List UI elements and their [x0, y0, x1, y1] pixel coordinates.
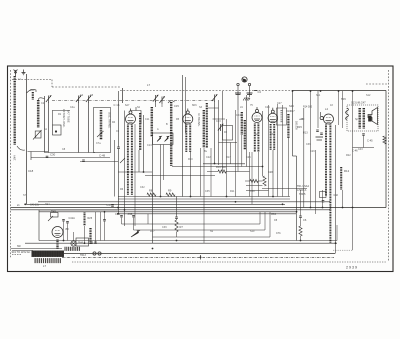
wire bus — [11, 209, 331, 211]
wire — [213, 118, 226, 120]
wire — [30, 152, 32, 161]
wire — [80, 161, 118, 163]
resistor box R3 — [223, 126, 233, 141]
junction — [63, 240, 65, 242]
wire — [52, 111, 54, 126]
wire — [342, 190, 344, 208]
wire — [246, 190, 269, 192]
junction — [200, 256, 202, 258]
svg-text:R22: R22 — [346, 154, 351, 157]
wire AVC dashed upper — [12, 79, 52, 81]
wire — [203, 148, 205, 243]
svg-text:C24: C24 — [236, 114, 241, 117]
wire — [293, 155, 297, 157]
rectifier V6 80 — [52, 227, 63, 238]
junction — [84, 242, 86, 244]
svg-text:C43: C43 — [358, 148, 363, 151]
wire — [104, 221, 106, 241]
coil L1 — [14, 76, 16, 145]
wire bus — [118, 213, 296, 215]
wire U-run — [148, 223, 260, 225]
wire — [218, 100, 220, 165]
wire — [251, 152, 253, 204]
anode box — [131, 107, 141, 124]
wire — [122, 223, 149, 225]
capacitor C40a — [235, 92, 241, 94]
wire — [249, 86, 251, 97]
wire — [63, 221, 65, 241]
junction — [338, 90, 340, 92]
wire — [264, 212, 266, 230]
det box — [277, 108, 287, 125]
wire — [237, 110, 239, 172]
wire — [222, 119, 224, 172]
wire — [363, 136, 365, 148]
wire — [300, 190, 302, 216]
junction — [320, 90, 322, 92]
wire — [182, 75, 184, 197]
junction — [335, 242, 337, 244]
pot arrow tone — [131, 231, 140, 238]
wire — [185, 77, 187, 133]
pilot lamp — [71, 241, 76, 246]
svg-text:C35: C35 — [205, 190, 210, 193]
tube V5 43 — [324, 114, 334, 124]
trimmer C23 — [220, 124, 222, 131]
capacitor C31 — [120, 215, 123, 217]
variable capacitor C1 — [48, 96, 50, 103]
svg-text:C41A: C41A — [69, 217, 76, 220]
wire — [219, 142, 238, 144]
svg-text:C36: C36 — [306, 143, 311, 146]
wire — [282, 105, 284, 197]
capacitor C37 — [111, 204, 114, 206]
junction — [117, 213, 119, 215]
output transformer sec — [363, 108, 365, 129]
coil T5b — [329, 125, 331, 244]
wire — [296, 156, 298, 241]
svg-text:C27: C27 — [277, 102, 282, 105]
coil T4a — [270, 124, 272, 150]
coil T4c — [287, 114, 289, 138]
capacitor C17 — [117, 146, 120, 148]
capacitor C33 — [132, 215, 135, 217]
resistor R8 — [147, 193, 156, 196]
resistor R12 — [340, 167, 342, 190]
junction — [300, 240, 302, 242]
wire — [237, 86, 239, 110]
capacitor C40b — [247, 92, 253, 94]
svg-text:6A7 TUBE: 6A7 TUBE — [67, 110, 71, 123]
coil L2 primary — [32, 92, 34, 100]
svg-text:S12: S12 — [366, 94, 371, 97]
resistor R26 box — [51, 213, 59, 218]
svg-text:R9: R9 — [168, 189, 172, 193]
det diode hatch — [281, 110, 283, 123]
svg-text:C33: C33 — [128, 212, 133, 216]
wire — [114, 140, 116, 197]
wire — [269, 212, 271, 237]
wire bus — [118, 198, 290, 200]
svg-text:C7b: C7b — [276, 232, 281, 235]
resistor R9 — [166, 193, 175, 196]
wire — [138, 150, 140, 172]
wire — [241, 135, 243, 167]
dashed chassis line right — [388, 70, 390, 262]
arrow pot — [120, 158, 125, 163]
wire — [315, 150, 317, 214]
svg-text:A 500. A: A 500. A — [297, 189, 307, 192]
cathode cluster cap2 — [320, 132, 323, 134]
wire — [342, 91, 344, 128]
wire — [300, 218, 302, 226]
junction — [24, 203, 26, 205]
capacitor C40b2 — [247, 94, 252, 96]
coil L7 osc — [151, 107, 153, 137]
svg-text:C34: C34 — [271, 212, 277, 216]
variable capacitor C3 — [88, 96, 90, 103]
svg-text:C11: C11 — [145, 118, 150, 121]
wire — [11, 248, 63, 250]
trimmer C6b — [161, 97, 163, 104]
wire — [258, 180, 263, 182]
wire — [52, 110, 70, 112]
wire — [118, 149, 120, 214]
wire — [353, 147, 375, 149]
svg-text:C23: C23 — [216, 120, 221, 123]
wire — [246, 95, 248, 167]
capacitor C41A — [62, 219, 65, 221]
capacitor C42 — [66, 221, 69, 223]
wire AVC dashed bus — [120, 90, 292, 92]
wire bus — [25, 203, 285, 205]
svg-text:C30: C30 — [50, 153, 56, 157]
coil T3d — [257, 124, 259, 153]
junction — [322, 207, 324, 209]
wire — [88, 102, 90, 153]
wire — [385, 91, 387, 208]
junction — [352, 207, 354, 209]
wire — [28, 151, 49, 153]
wire — [45, 152, 96, 154]
wire — [235, 110, 237, 197]
speaker — [368, 108, 378, 125]
junction — [310, 207, 312, 209]
junction — [292, 90, 294, 92]
svg-text:OSC.TRANS.: OSC.TRANS. — [107, 112, 111, 129]
svg-text:C4: C4 — [258, 90, 262, 94]
wire — [48, 102, 50, 153]
junction — [342, 207, 344, 209]
junction — [200, 255, 202, 260]
jack blob — [243, 79, 246, 82]
wire dotted — [333, 249, 353, 251]
trimmer arrow — [97, 131, 104, 137]
wire — [25, 242, 337, 244]
wire — [26, 74, 28, 204]
svg-text:R15: R15 — [297, 125, 302, 129]
wire — [160, 145, 162, 197]
junction — [235, 201, 237, 203]
wire — [245, 180, 250, 182]
svg-text:C37: C37 — [107, 203, 112, 207]
wire — [147, 214, 149, 224]
svg-text:R24: R24 — [45, 203, 50, 206]
svg-text:C28: C28 — [268, 171, 273, 174]
wire — [203, 163, 245, 165]
svg-text:S13,N8,C47: S13,N8,C47 — [351, 101, 366, 105]
svg-text:1ST.DET.-OSC.: 1ST.DET.-OSC. — [62, 109, 66, 128]
coil hook — [38, 98, 44, 100]
transformer hatch — [32, 250, 65, 256]
terminal dot — [55, 130, 57, 132]
wire — [258, 152, 260, 197]
svg-text:6D6: 6D6 — [192, 104, 197, 107]
coil T2c — [203, 110, 205, 148]
wire B+ top — [292, 90, 386, 92]
wire — [335, 125, 337, 254]
wire — [277, 104, 279, 197]
capacitor C30 — [46, 155, 49, 157]
wire — [336, 225, 338, 241]
wire mains — [12, 250, 33, 252]
wire — [84, 226, 86, 243]
svg-text:C13: C13 — [147, 144, 152, 147]
wire — [39, 240, 337, 242]
svg-text:R12: R12 — [344, 169, 350, 173]
ground — [23, 70, 25, 73]
junction — [124, 209, 126, 211]
diode arrow 1 — [157, 136, 162, 141]
wire — [163, 145, 165, 181]
speaker field coil — [89, 228, 91, 244]
svg-text:R27: R27 — [150, 230, 155, 233]
wire — [287, 138, 289, 197]
svg-text:L7: L7 — [147, 83, 151, 87]
wire U-run — [153, 236, 271, 238]
antenna — [14, 70, 18, 77]
wire — [310, 91, 312, 208]
tube V2 6D6 — [183, 114, 193, 124]
wire — [303, 108, 305, 208]
coil T3c — [254, 124, 256, 153]
junction — [330, 207, 332, 209]
wire — [176, 197, 178, 218]
svg-text:S16: S16 — [289, 104, 294, 108]
coil L4 — [100, 110, 103, 140]
svg-text:TR13: TR13 — [80, 254, 87, 257]
wire — [268, 105, 270, 197]
svg-text:C 16: C 16 — [114, 103, 120, 107]
choke box S14 — [76, 238, 89, 246]
svg-text:L7: L7 — [43, 264, 47, 268]
junction — [160, 196, 162, 198]
voice coil — [368, 116, 371, 122]
curl top — [168, 101, 175, 103]
wire — [44, 96, 46, 153]
wire — [317, 91, 319, 128]
wire mains2 — [12, 254, 22, 256]
coil T3b — [244, 120, 246, 150]
junction — [282, 203, 284, 205]
junction — [152, 248, 154, 250]
svg-text:S10: S10 — [250, 230, 255, 233]
filter choke squiggle — [346, 108, 349, 120]
capacitor C45 — [362, 133, 365, 135]
capacitor C34 — [175, 216, 178, 218]
capacitor C40a2 — [236, 94, 241, 96]
dashed chassis line top right — [366, 83, 389, 85]
svg-text:ANT.: ANT. — [13, 155, 17, 161]
chassis ground — [243, 98, 250, 101]
capacitor bias — [322, 200, 325, 202]
wiper arrow — [33, 130, 42, 140]
capacitor C44b — [94, 241, 97, 243]
wiper — [48, 216, 53, 221]
junction — [262, 166, 264, 168]
wire — [121, 218, 123, 225]
svg-text:R16 500: R16 500 — [216, 165, 226, 169]
wire — [172, 166, 263, 168]
cathode cluster mark2 — [317, 139, 323, 141]
tube V3 6D6 — [252, 113, 262, 123]
wire — [104, 212, 106, 220]
svg-text:R20: R20 — [188, 158, 193, 161]
svg-text:R7: R7 — [180, 225, 184, 229]
tube V4 75 — [268, 113, 278, 123]
wire — [100, 212, 102, 241]
wire U-run — [134, 229, 266, 231]
wire — [95, 212, 97, 243]
junction — [143, 171, 145, 173]
wire — [246, 185, 263, 187]
resistor R19 — [299, 226, 302, 236]
wire — [176, 232, 178, 237]
wire — [134, 124, 136, 226]
dashed chassis line bottom — [72, 261, 387, 263]
resistor R7 — [175, 220, 178, 232]
wire — [249, 152, 251, 197]
capacitor C16 — [122, 88, 124, 103]
svg-text:R10: R10 — [286, 110, 291, 113]
junction — [352, 90, 354, 92]
wire bus B- — [11, 207, 387, 209]
junction — [104, 211, 106, 213]
wire — [143, 115, 145, 172]
power box — [39, 210, 118, 241]
diode arrow 2 — [165, 136, 170, 141]
coil L2 — [37, 100, 40, 128]
svg-text:C25: C25 — [246, 156, 251, 159]
svg-text:2 9 3 9: 2 9 3 9 — [346, 266, 357, 270]
wire bus — [39, 211, 296, 213]
svg-text:R8: R8 — [149, 189, 153, 193]
coil T2b — [189, 125, 191, 153]
svg-text:R17: R17 — [290, 110, 295, 113]
svg-text:R11: R11 — [230, 190, 235, 193]
svg-text:C32: C32 — [140, 186, 145, 189]
wire — [190, 152, 192, 197]
wire — [124, 111, 126, 227]
wire — [210, 148, 212, 197]
IF transformer T1 box — [94, 108, 111, 153]
junction — [296, 211, 298, 213]
wire AVC dashed mid — [52, 86, 120, 88]
svg-text:C29: C29 — [310, 150, 315, 153]
coil T2a — [185, 125, 187, 153]
wire — [352, 91, 354, 250]
coil T5a — [325, 125, 327, 197]
wire — [300, 236, 302, 241]
hook — [17, 146, 25, 150]
svg-text:C18: C18 — [28, 169, 34, 173]
svg-text:R13: R13 — [303, 132, 308, 135]
wire — [262, 111, 264, 176]
svg-text:Osc: Osc — [30, 89, 35, 92]
wire — [262, 188, 307, 190]
gang dash-dot link — [52, 100, 214, 102]
wire — [208, 107, 219, 109]
junction — [190, 196, 192, 198]
dashed chassis line left — [10, 70, 12, 258]
output transformer — [358, 108, 360, 129]
wire — [292, 91, 294, 156]
jack J1 — [242, 77, 247, 82]
coil filament choke — [56, 240, 58, 250]
wire filament dashdot — [62, 256, 334, 258]
coil L6 — [139, 113, 141, 150]
capacitor C44a — [90, 241, 93, 243]
junction — [117, 207, 119, 209]
svg-text:C38: C38 — [250, 190, 255, 193]
svg-text:T30 5: T30 5 — [299, 193, 306, 196]
resistor R16 — [218, 170, 226, 173]
wire — [118, 171, 152, 173]
resistor R21 — [250, 179, 258, 182]
junction — [310, 90, 312, 92]
cathode cluster cap1 — [316, 129, 319, 131]
wire — [322, 190, 324, 208]
terminal — [248, 83, 250, 85]
coil L8 tall — [170, 102, 172, 166]
wire — [51, 80, 53, 88]
svg-text:C7a: C7a — [96, 142, 101, 145]
junction — [176, 240, 178, 242]
svg-text:5M4: 5M4 — [78, 242, 83, 245]
pilot lamp x — [72, 242, 75, 245]
variable capacitor C2 — [78, 96, 80, 103]
wire — [73, 232, 75, 241]
wire — [176, 219, 178, 220]
diode box — [153, 133, 174, 145]
capacitor C6b — [299, 215, 302, 217]
svg-text:C26: C26 — [265, 106, 270, 109]
transformer T6 primary — [32, 251, 65, 257]
svg-text:S19 TO 115V.AC: S19 TO 115V.AC — [12, 251, 31, 254]
wire — [226, 171, 250, 173]
svg-text:C-45: C-45 — [367, 139, 373, 143]
svg-text:S11: S11 — [316, 94, 321, 97]
junction — [272, 196, 274, 198]
wire — [118, 91, 120, 147]
wire — [133, 218, 135, 231]
wire — [259, 212, 261, 224]
svg-text:R14 500: R14 500 — [303, 106, 313, 109]
svg-text:C6: C6 — [303, 218, 307, 222]
wire — [226, 119, 228, 197]
svg-text:C-49: C-49 — [99, 154, 106, 158]
wire bus — [38, 201, 330, 203]
